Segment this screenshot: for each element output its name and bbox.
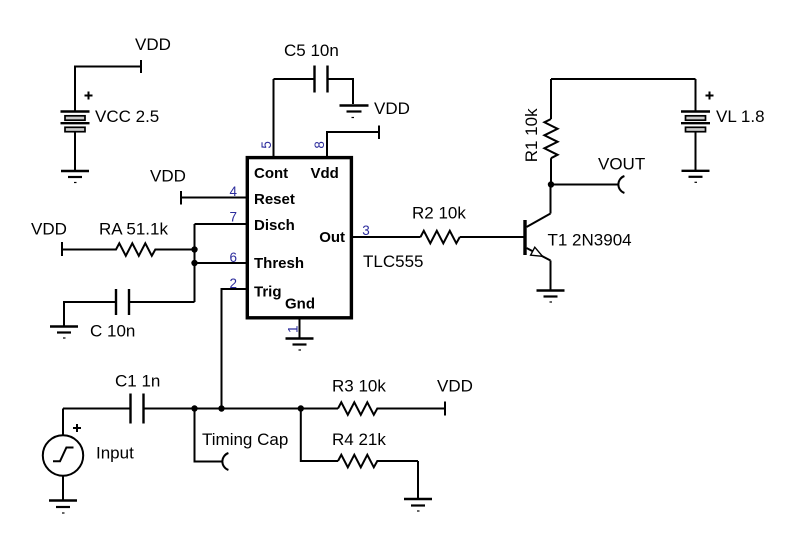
svg-text:Out: Out xyxy=(319,229,345,246)
wire (pin 2 / Trig net) xyxy=(222,289,247,409)
ground (below VL) xyxy=(682,171,710,183)
svg-text:Gnd: Gnd xyxy=(285,296,315,313)
node VDD (rail symbol near C5) xyxy=(340,99,410,118)
svg-text:3: 3 xyxy=(362,223,370,238)
wire (collector) xyxy=(550,185,552,214)
transistor T1 2N3904 xyxy=(525,214,632,261)
svg-text:VCC 2.5: VCC 2.5 xyxy=(95,107,159,126)
svg-text:VL 1.8: VL 1.8 xyxy=(716,107,765,126)
wire (pin 7) xyxy=(195,223,247,225)
svg-text:C1 1n: C1 1n xyxy=(115,372,160,391)
svg-text:1: 1 xyxy=(285,325,300,333)
resistor R2 10k xyxy=(412,204,466,244)
svg-text:Thresh: Thresh xyxy=(254,255,304,272)
svg-text:T1 2N3904: T1 2N3904 xyxy=(548,231,632,250)
svg-text:R3 10k: R3 10k xyxy=(332,377,386,396)
svg-text:VDD: VDD xyxy=(437,377,473,396)
node Timing Cap terminal xyxy=(195,409,289,471)
junction (collector/R1/VOUT) xyxy=(548,181,554,187)
wire (pin 1) xyxy=(299,318,301,338)
resistor R1 10k xyxy=(522,79,558,185)
junction (Thresh) xyxy=(191,260,197,266)
svg-text:C 10n: C 10n xyxy=(90,322,135,341)
battery VCC 2.5 xyxy=(61,92,160,132)
svg-text:Trig: Trig xyxy=(254,284,282,301)
svg-text:Disch: Disch xyxy=(254,217,295,234)
ground (below R4) xyxy=(404,499,432,511)
capacitor C1 1n xyxy=(115,372,160,424)
resistor RA 51.1k xyxy=(62,220,195,256)
wire (top rail) xyxy=(551,78,696,80)
svg-text:RA 51.1k: RA 51.1k xyxy=(99,220,168,239)
ground (below Input) xyxy=(49,501,77,514)
svg-text:5: 5 xyxy=(259,141,274,149)
wire (pin 8 net) xyxy=(327,132,379,157)
junction (R3/R4) xyxy=(298,405,304,411)
wire xyxy=(64,302,115,326)
junction (Trig) xyxy=(218,405,224,411)
ground (below VCC) xyxy=(61,171,89,183)
ground (below C) xyxy=(50,327,78,339)
node VDD (RA terminal) xyxy=(31,220,67,257)
svg-text:R1 10k: R1 10k xyxy=(522,108,541,162)
svg-text:R2 10k: R2 10k xyxy=(412,204,466,223)
junction (C1/Timing) xyxy=(191,405,197,411)
node VDD (R3 terminal) xyxy=(437,377,473,416)
wire xyxy=(75,67,141,112)
svg-text:TLC555: TLC555 xyxy=(363,252,423,271)
battery VL 1.8 xyxy=(681,92,765,132)
wire xyxy=(695,132,697,171)
node VDD (top-left terminal) xyxy=(135,35,171,73)
resistor R3 10k xyxy=(332,377,445,415)
wire (Out, pin 3) xyxy=(351,236,420,238)
wire xyxy=(130,301,195,303)
wire xyxy=(329,79,354,104)
svg-text:VDD: VDD xyxy=(374,99,410,118)
svg-text:7: 7 xyxy=(230,210,238,225)
wire xyxy=(460,236,524,238)
svg-text:VDD: VDD xyxy=(135,35,171,54)
wire (timing cap net) xyxy=(145,408,339,410)
ground (below T1) xyxy=(537,291,565,303)
wire xyxy=(417,461,419,499)
wire (emitter) xyxy=(550,261,552,291)
svg-text:VOUT: VOUT xyxy=(598,155,645,174)
wire xyxy=(274,78,314,80)
svg-text:Reset: Reset xyxy=(254,191,295,208)
wire xyxy=(63,408,130,410)
wire xyxy=(74,132,76,171)
capacitor C5 xyxy=(284,41,339,93)
junction (RA / Disch) xyxy=(191,246,197,252)
node VDD (pin 8 terminal) xyxy=(378,126,380,140)
wire (pin 4) xyxy=(181,197,247,199)
capacitor C 10n xyxy=(90,289,135,341)
svg-text:C5 10n: C5 10n xyxy=(284,41,339,60)
wire (pin 6) xyxy=(195,262,247,264)
wire (VOUT) xyxy=(551,184,619,186)
svg-text:Timing Cap: Timing Cap xyxy=(202,430,288,449)
svg-text:Input: Input xyxy=(96,444,134,463)
generator Input (VG1) xyxy=(43,409,134,476)
wire (pin 7 net vertical) xyxy=(194,224,196,302)
svg-text:Vdd: Vdd xyxy=(311,165,339,182)
wire xyxy=(695,79,697,112)
resistor R4 21k xyxy=(301,409,418,468)
svg-text:Cont: Cont xyxy=(254,165,288,182)
wire xyxy=(62,476,64,500)
svg-text:8: 8 xyxy=(312,141,327,149)
svg-text:VDD: VDD xyxy=(150,167,186,186)
ground (below pin 1) xyxy=(286,339,314,351)
wire (pin 5 net) xyxy=(273,79,275,157)
svg-text:VDD: VDD xyxy=(31,220,67,239)
node VDD (pin 4 terminal) xyxy=(150,167,186,205)
op-amp U1 TLC555 box xyxy=(247,158,423,318)
svg-text:R4 21k: R4 21k xyxy=(332,430,386,449)
node VOUT terminal xyxy=(598,155,645,194)
